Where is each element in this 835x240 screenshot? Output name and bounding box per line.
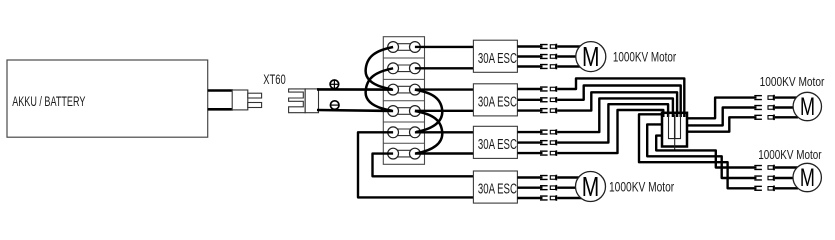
svg-text:XT60: XT60 [263, 72, 286, 87]
wire row2 to ESC1 [415, 67, 474, 69]
jumper wire row2 to row4 [366, 68, 394, 110]
motor B bullet connectors [754, 165, 775, 191]
svg-text:1000KV Motor: 1000KV Motor [758, 147, 822, 162]
junction box J1 [662, 113, 687, 147]
wire battery negative to XT60 male [208, 108, 233, 111]
wire junction to motor B phase 1 [656, 136, 756, 168]
motor A bullet connectors [754, 95, 775, 120]
motor MA [793, 92, 821, 121]
label motor M1 1000KV [613, 49, 677, 64]
battery label AKKU / BATTERY [12, 94, 85, 109]
ESC2 output wire A [517, 88, 542, 90]
motor M1 wires [557, 47, 582, 67]
board row bus bars [394, 44, 414, 157]
wire row6 to ESC3 [415, 152, 474, 154]
svg-text:M: M [800, 164, 815, 192]
label motor MA 1000KV [760, 74, 825, 89]
ESC2 wire B to junction [557, 86, 681, 118]
distribution board outline [383, 37, 424, 165]
wire row5 to ESC4 lower input [358, 132, 473, 197]
XT60 female connector body [305, 89, 318, 113]
label motor M4 1000KV [609, 179, 674, 194]
ESC2 output wire C [517, 109, 542, 111]
jumper wire row1 to row3 [366, 47, 394, 89]
wire XT60 negative to board row 4 [317, 110, 393, 111]
ESC U4 box [473, 171, 517, 203]
motor MB [793, 163, 821, 192]
svg-text:M: M [582, 171, 600, 202]
wire row3 to ESC2 [415, 88, 474, 90]
wire junction to motor A phase 2 [687, 108, 757, 126]
ESC3 wire C to junction [557, 110, 663, 153]
wire junction to motor A phase 3 [687, 117, 757, 131]
ESC4 output wire A [517, 176, 542, 178]
ESC3 bullet connectors [540, 129, 557, 156]
wire XT60 positive to board row 3 [317, 88, 393, 91]
motor B wires [775, 168, 798, 189]
ESC4 output wire B [517, 186, 542, 188]
svg-text:1000KV Motor: 1000KV Motor [760, 74, 825, 89]
label motor MB 1000KV [758, 147, 822, 162]
ESC U2 box [473, 84, 517, 116]
XT60 male connector body [232, 90, 248, 110]
XT60 female connector comb [289, 89, 306, 113]
wire junction to motor B phase 3 [639, 114, 757, 188]
board terminals row 2 [388, 63, 421, 74]
wire junction to motor A phase 1 [687, 98, 757, 119]
ESC3 output wire B [517, 141, 542, 143]
ESC1 output wire C [517, 65, 542, 67]
ESC1 bullet connectors [540, 44, 557, 70]
svg-text:M: M [582, 41, 600, 72]
board terminals row 5 [388, 127, 421, 138]
svg-text:30A ESC: 30A ESC [478, 137, 517, 153]
ESC4 bullet connectors [540, 175, 557, 201]
ESC U1 box [473, 40, 517, 72]
ESC2 wire C to junction [557, 92, 677, 117]
wire row1 to ESC1 [415, 46, 474, 48]
ESC1 output wire B [517, 55, 542, 57]
board terminals row 4 [388, 106, 421, 117]
XT60 male pin 1 [248, 93, 262, 98]
svg-text:M: M [800, 93, 815, 121]
wire row4 to ESC2 [415, 110, 474, 112]
battery B1 [7, 60, 208, 137]
board terminals row 6 [388, 148, 421, 159]
motor M4 wires [557, 178, 582, 199]
ESC1 output wire A [517, 45, 542, 47]
ESC2 bullet connectors [540, 86, 557, 113]
ESC3 wire A to junction [557, 98, 673, 132]
board terminals row 1 [388, 42, 421, 53]
ESC2 output wire B [517, 99, 542, 101]
svg-text:30A ESC: 30A ESC [478, 51, 517, 67]
label XT60 [263, 72, 286, 87]
minus terminal symbol [330, 101, 339, 110]
motor M4 [576, 171, 606, 202]
junction box inner sleeve [669, 114, 681, 150]
wire battery positive to XT60 male [208, 89, 233, 92]
wire row6 to ESC4 upper input [373, 154, 474, 177]
svg-text:30A ESC: 30A ESC [478, 182, 517, 198]
wire row5 to ESC3 [415, 131, 474, 133]
board terminals row 3 [388, 84, 421, 95]
motor M1 [576, 41, 606, 72]
ESC4 output wire C [517, 197, 542, 199]
board row separators [383, 58, 424, 143]
ESC3 output wire A [517, 131, 542, 133]
ESC2 wire A to junction [557, 78, 684, 117]
XT60 male pin 2 [248, 103, 262, 108]
ESC3 wire B to junction [557, 104, 668, 142]
jumper wire row3 to row5 [415, 90, 442, 132]
ESC3 output wire C [517, 152, 542, 154]
wire junction to motor B phase 2 [647, 124, 756, 178]
svg-text:AKKU / BATTERY: AKKU / BATTERY [12, 94, 85, 109]
svg-text:1000KV Motor: 1000KV Motor [609, 179, 674, 194]
svg-text:30A ESC: 30A ESC [478, 94, 517, 110]
ESC U3 box [473, 126, 517, 158]
svg-text:1000KV Motor: 1000KV Motor [613, 49, 677, 64]
motor A wires [775, 98, 798, 118]
jumper wire row4 to row6 [415, 111, 442, 153]
plus terminal symbol [330, 80, 339, 89]
